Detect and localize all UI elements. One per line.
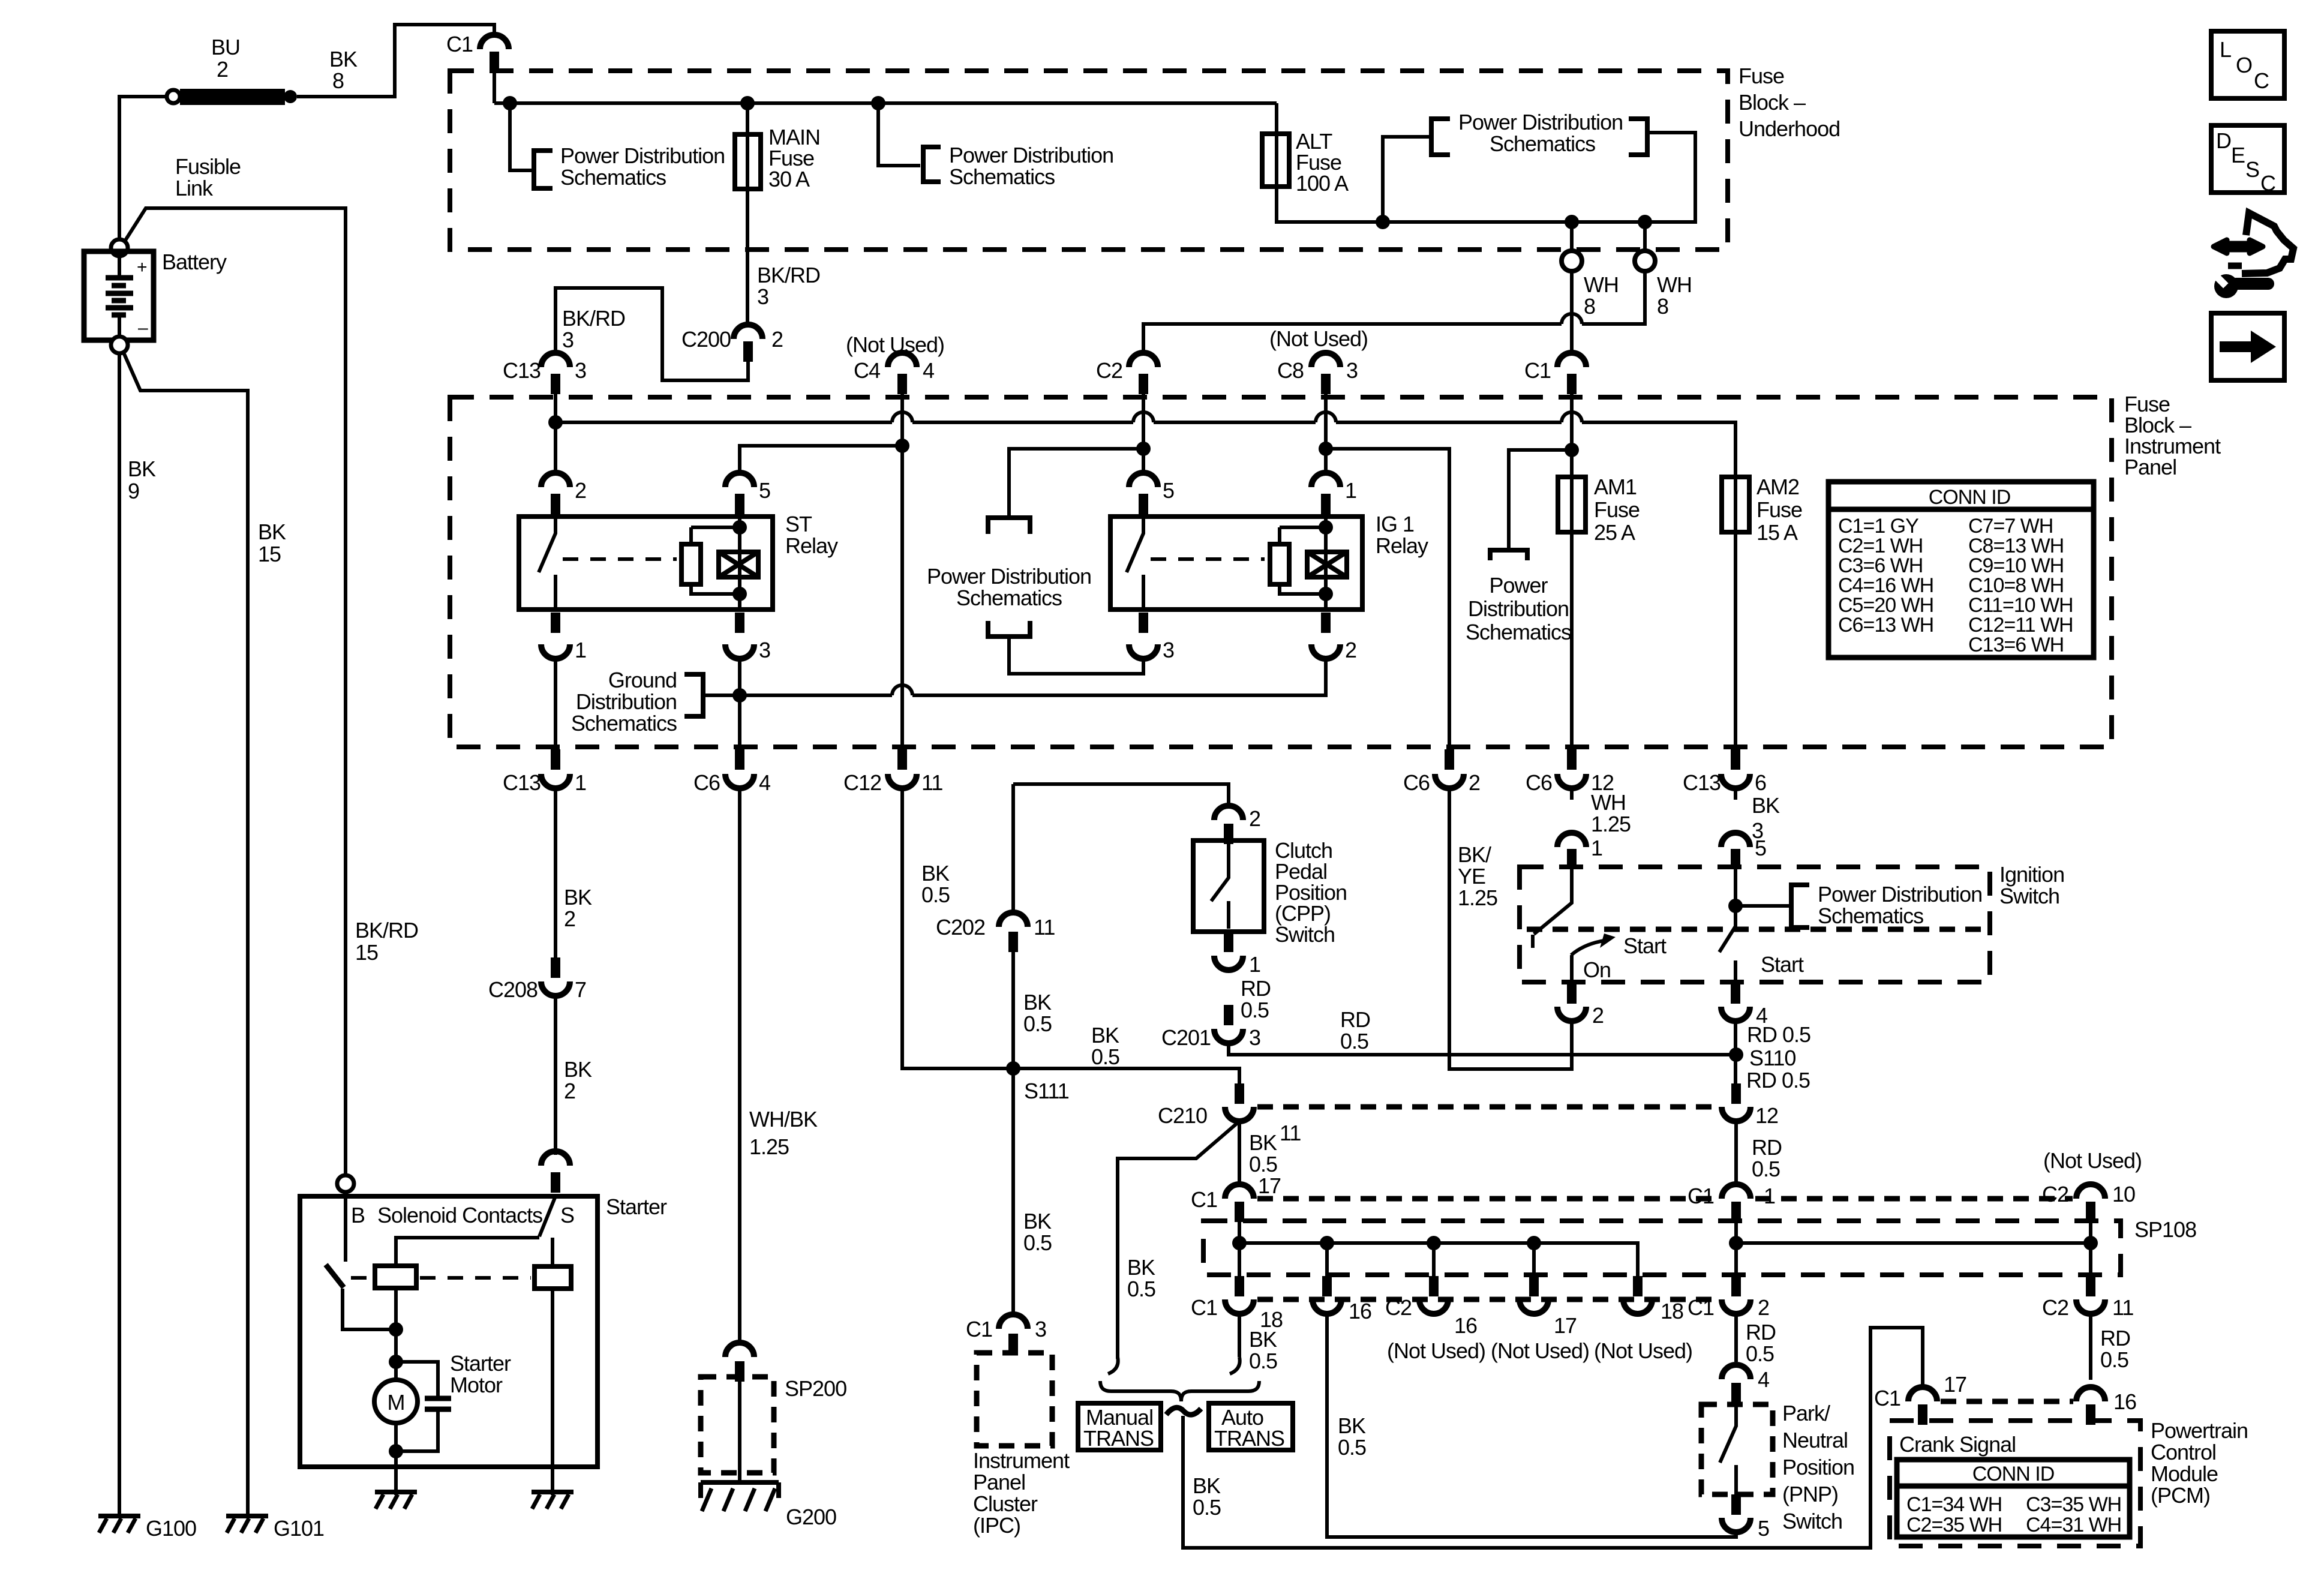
node C13 at IP bus: [548, 415, 563, 430]
svg-text:1.25: 1.25: [1591, 812, 1631, 836]
svg-text:Position: Position: [1782, 1455, 1854, 1479]
svg-text:Ground: Ground: [608, 668, 677, 692]
svg-text:Fusible: Fusible: [175, 154, 241, 179]
connector CPP pin 2: [1214, 806, 1260, 844]
ST relay armature box with X: [719, 552, 758, 577]
svg-text:Schematics: Schematics: [1818, 903, 1923, 928]
svg-text:Schematics: Schematics: [956, 586, 1062, 610]
svg-text:0.5: 0.5: [2100, 1347, 2128, 1372]
svg-text:C2: C2: [2042, 1295, 2068, 1320]
svg-text:Switch: Switch: [1999, 884, 2059, 908]
wire C200 to C13-3: [556, 288, 748, 380]
connector C8 pin 3 (IP top, not used): [1269, 326, 1368, 394]
svg-text:2: 2: [1758, 1295, 1769, 1320]
svg-text:Fuse: Fuse: [1756, 497, 1802, 522]
terminal circle B: [337, 1175, 354, 1192]
wire bus to MAIN fuse: [746, 103, 749, 134]
SP108 bus left: [1239, 1243, 1638, 1282]
starter motor M: [374, 1380, 418, 1423]
next-page arrow icon box: [2211, 313, 2284, 380]
wire C210 down to C1-17: [1238, 1121, 1241, 1184]
C1 row dashed line: [1257, 1196, 1717, 1202]
svg-text:Distribution: Distribution: [1468, 596, 1569, 621]
IG1 pin 5 connector: [1129, 473, 1174, 514]
PNP switch blade: [1720, 1404, 1736, 1494]
wire to power distribution ref 3: [1383, 137, 1430, 222]
svg-text:Schematics: Schematics: [571, 711, 677, 736]
wire C6-4 to SP200: [738, 788, 741, 1343]
svg-text:BK/RD: BK/RD: [562, 306, 625, 331]
svg-text:8: 8: [332, 68, 344, 93]
ST relay box: [519, 517, 773, 610]
svg-text:Motor: Motor: [450, 1373, 503, 1397]
IG1 switch: [1127, 517, 1143, 610]
connector SP200 feed: [725, 1343, 754, 1382]
svg-text:0.5: 0.5: [1249, 1349, 1277, 1373]
wire C13-6 to ignition pin 5: [1734, 788, 1737, 800]
svg-text:8: 8: [1584, 294, 1595, 319]
wire battery+ to BK/RD 15: [125, 208, 346, 1175]
svg-text:RD: RD: [1340, 1007, 1370, 1032]
svg-text:11: 11: [1034, 915, 1055, 939]
connector C2 pin 11: [2042, 1276, 2133, 1320]
node C2 branch to PDS mid: [1136, 442, 1151, 456]
svg-text:0.5: 0.5: [1091, 1044, 1119, 1069]
svg-text:CONN ID: CONN ID: [1929, 486, 2011, 509]
fuse block instrument panel dashed box: [450, 397, 2112, 747]
svg-text:C1: C1: [966, 1317, 992, 1341]
svg-text:2: 2: [217, 57, 228, 82]
node SP108 right: [1729, 1236, 1743, 1250]
svg-text:C13: C13: [1683, 770, 1721, 795]
starter capacitor branch: [396, 1362, 438, 1451]
instrument panel cluster dashed box: [977, 1353, 1052, 1446]
node ignition PDS branch: [1728, 899, 1743, 913]
ST relay pin 3 connector: [725, 613, 770, 662]
svg-text:17: 17: [1554, 1313, 1577, 1338]
svg-text:(PNP): (PNP): [1782, 1482, 1838, 1506]
svg-text:RD: RD: [1241, 976, 1271, 1001]
svg-text:C1: C1: [1191, 1187, 1217, 1212]
svg-text:C13: C13: [503, 770, 541, 795]
svg-text:RD: RD: [1746, 1320, 1776, 1344]
svg-text:(Not Used): (Not Used): [1269, 326, 1368, 351]
bracket power distribution ref 2: [923, 147, 941, 182]
starter box: [300, 1196, 597, 1467]
wire C210 diagonal to trans-select wire: [1118, 1121, 1239, 1359]
svg-text:S111: S111: [1024, 1079, 1069, 1103]
bus wire in underhood block: [494, 101, 1277, 105]
connector starter S: [541, 1151, 570, 1193]
connector C4 pin 4 (IP top, not used): [846, 332, 944, 394]
svg-text:BK: BK: [1249, 1130, 1277, 1155]
svg-text:0.5: 0.5: [1023, 1230, 1052, 1255]
connector pin 16: [1313, 1276, 1371, 1323]
svg-text:C200: C200: [681, 327, 731, 352]
svg-text:Schematics: Schematics: [1490, 131, 1595, 156]
wire-end curl right: [1230, 1357, 1240, 1374]
svg-text:TRANS: TRANS: [1083, 1426, 1154, 1451]
svg-text:0.5: 0.5: [1023, 1011, 1052, 1036]
node motor bottom: [389, 1444, 403, 1458]
PCM CONN ID table: [1897, 1460, 2130, 1537]
wire BK/YE: C6-2 to ignition pin 2: [1449, 788, 1572, 1069]
IP internal bus wire: [556, 422, 1736, 477]
wire to PDS bracket (ignition): [1736, 904, 1790, 908]
svg-text:0.5: 0.5: [1338, 1435, 1366, 1460]
connector PNP pin 5: [1722, 1494, 1769, 1541]
fuse AM2 15A: [1722, 477, 1749, 532]
node SP108 at C2: [2083, 1236, 2098, 1250]
ignition right pole: [1719, 869, 1736, 952]
svg-text:C2: C2: [1385, 1295, 1412, 1320]
svg-text:Control: Control: [2151, 1440, 2216, 1464]
splice S110: [1729, 1047, 1743, 1062]
svg-text:BK/: BK/: [1458, 842, 1491, 867]
node SP108 at C2-16: [1427, 1236, 1441, 1250]
connector C13 pin 3 (IP top): [503, 353, 586, 394]
starter solenoid switch blade: [326, 1265, 344, 1287]
svg-text:6: 6: [1755, 770, 1766, 795]
svg-text:Park/: Park/: [1782, 1401, 1830, 1425]
svg-text:C6: C6: [1526, 770, 1552, 795]
ground G200: [701, 1482, 779, 1511]
svg-text:Module: Module: [2151, 1461, 2218, 1486]
svg-text:BK: BK: [128, 457, 156, 481]
svg-text:BK/RD: BK/RD: [355, 918, 418, 942]
svg-text:5: 5: [1755, 836, 1766, 860]
svg-text:1: 1: [1591, 836, 1602, 860]
battery: [84, 239, 154, 353]
node ST coil bottom: [732, 587, 747, 601]
node B contact / motor: [389, 1322, 403, 1337]
wire WH8 left drop: [1570, 222, 1574, 250]
svg-text:8: 8: [1657, 294, 1668, 319]
svg-text:Power Distribution: Power Distribution: [1458, 110, 1623, 134]
svg-text:1: 1: [575, 770, 586, 795]
svg-text:ST: ST: [785, 512, 812, 536]
wire coil to motor node: [394, 1288, 398, 1362]
svg-text:S: S: [2245, 157, 2259, 182]
svg-text:3: 3: [759, 638, 770, 662]
svg-text:4: 4: [759, 770, 770, 795]
svg-text:0.5: 0.5: [1127, 1277, 1155, 1301]
svg-text:1: 1: [1764, 1184, 1775, 1208]
connector C13 pin 6: [1683, 749, 1766, 795]
svg-text:Schematics: Schematics: [1466, 620, 1571, 644]
svg-text:Schematics: Schematics: [949, 164, 1055, 189]
connector C1 (IP top): [1524, 353, 1586, 394]
wire trans select to crank signal: [1183, 1328, 1923, 1548]
wire PNP 5 to SP108-16: [1327, 1314, 1736, 1537]
ground starter motor: [375, 1492, 417, 1509]
svg-text:16: 16: [1454, 1313, 1477, 1338]
connector ignition pin 4: [1721, 983, 1767, 1028]
svg-text:YE: YE: [1458, 864, 1485, 888]
svg-text:18: 18: [1661, 1299, 1683, 1323]
svg-text:WH: WH: [1657, 272, 1692, 297]
bracket PDS ignition: [1791, 885, 1809, 927]
wire AM2 to C13-6: [1734, 532, 1737, 760]
terminal circle WH8 left: [1562, 251, 1582, 271]
fuse AM1 25A: [1558, 477, 1586, 532]
connector C208 pin 7: [488, 957, 586, 1002]
node ST pin3 / ground distribution: [732, 688, 747, 703]
PNP switch dashed box: [1701, 1404, 1773, 1494]
wire C8 drop to IG1 pin 1: [1324, 394, 1328, 473]
svg-text:100 A: 100 A: [1296, 171, 1349, 196]
node C4 / ST relay pin5 feed: [895, 439, 909, 453]
svg-text:3: 3: [1035, 1317, 1046, 1341]
wire C1-17 into SP108: [1238, 1222, 1241, 1243]
IG1 armature box with X: [1307, 552, 1347, 577]
svg-text:C4: C4: [854, 358, 880, 383]
svg-text:–: –: [138, 318, 148, 338]
svg-text:C208: C208: [488, 977, 538, 1002]
fuse MAIN 30A: [735, 134, 761, 189]
svg-text:Fuse: Fuse: [1594, 497, 1640, 522]
ground G101: [226, 1516, 268, 1533]
brace: [1100, 1381, 1259, 1401]
svg-text:BK/RD: BK/RD: [757, 263, 820, 287]
DESC icon box: [2211, 125, 2284, 196]
svg-text:C202: C202: [936, 915, 985, 939]
svg-text:(Not Used): (Not Used): [2043, 1148, 2142, 1173]
svg-text:11: 11: [1280, 1121, 1301, 1145]
node WH8 left: [1565, 215, 1579, 229]
starter solenoid coil left (pull-in): [375, 1266, 416, 1288]
svg-text:C: C: [2254, 68, 2269, 93]
ST relay actuation dashed: [563, 557, 677, 561]
bracket power distribution ref 1: [534, 151, 553, 188]
connector CPP pin 1: [1214, 932, 1260, 977]
wire C208 to starter S: [554, 996, 557, 1155]
svg-text:IG 1: IG 1: [1376, 512, 1414, 536]
svg-text:Start: Start: [1761, 952, 1804, 977]
wire to power distribution ref 2: [878, 103, 920, 166]
wire C1-18 down: [1238, 1314, 1241, 1357]
wire battery- to G100: [118, 353, 121, 1515]
Manual TRANS box: [1078, 1403, 1161, 1450]
svg-text:1.25: 1.25: [749, 1134, 789, 1159]
ST relay pin 5 connector: [725, 473, 770, 514]
svg-text:Power: Power: [1489, 573, 1548, 598]
node ST coil top: [732, 520, 747, 535]
hop C1: [1562, 412, 1582, 422]
svg-text:D: D: [2216, 128, 2231, 153]
wire WH8 right drop: [1643, 222, 1647, 250]
svg-text:Relay: Relay: [1376, 533, 1428, 558]
svg-text:2: 2: [1345, 638, 1356, 662]
wire C1 drop to AM1: [1570, 394, 1574, 477]
svg-text:C13=6 WH: C13=6 WH: [1968, 634, 2064, 656]
svg-text:B: B: [351, 1203, 365, 1227]
ignition start terminal wire: [1734, 960, 1737, 984]
svg-text:+: +: [137, 257, 147, 277]
svg-text:C6: C6: [693, 770, 720, 795]
svg-text:RD 0.5: RD 0.5: [1746, 1068, 1810, 1092]
svg-text:C12: C12: [843, 770, 881, 795]
svg-text:RD: RD: [2100, 1326, 2130, 1350]
node IG1 coil top: [1319, 520, 1333, 535]
IG1 pin 3 connector: [1129, 613, 1174, 662]
wire C2 to power distribution ref mid: [1009, 449, 1143, 517]
svg-text:16: 16: [2113, 1389, 2136, 1414]
svg-text:BK: BK: [1338, 1413, 1366, 1438]
svg-text:0.5: 0.5: [921, 882, 950, 907]
svg-text:0.5: 0.5: [1241, 998, 1269, 1022]
svg-text:1: 1: [1345, 478, 1356, 503]
svg-text:CONN ID: CONN ID: [1972, 1463, 2055, 1485]
wire WH8 right to C2 instrument panel: [1143, 271, 1645, 353]
wire fusible link to C1 underhood: [297, 25, 494, 97]
wire C1-2 to PNP pin 4: [1734, 1314, 1738, 1362]
hop C8: [1316, 412, 1336, 422]
svg-text:SP108: SP108: [2134, 1217, 2196, 1242]
svg-text:(IPC): (IPC): [973, 1513, 1020, 1538]
IG1 coil resistor: [1270, 544, 1289, 584]
wire bracket to node: [703, 694, 740, 697]
connector C6 pin 12: [1526, 749, 1614, 795]
IG1 pin 2 connector: [1311, 613, 1356, 662]
svg-text:C3=35 WH: C3=35 WH: [2026, 1493, 2121, 1516]
wire B into box: [344, 1192, 347, 1262]
svg-text:5: 5: [1163, 478, 1174, 503]
svg-text:Power Distribution: Power Distribution: [560, 143, 725, 168]
node PDS3 left: [1376, 215, 1390, 229]
svg-text:1: 1: [1249, 952, 1260, 977]
svg-text:BK: BK: [1023, 990, 1052, 1014]
connector pin 18 (not used): [1594, 1276, 1692, 1363]
fusible link: [167, 89, 297, 105]
ignition start curve arrow: [1571, 940, 1608, 955]
node WH8 right: [1638, 215, 1652, 229]
node PDS1 branch: [503, 96, 517, 110]
bracket PDS mid top: [988, 518, 1030, 534]
wire C201 to S110: [1229, 1043, 1736, 1055]
svg-text:TRANS: TRANS: [1214, 1426, 1284, 1451]
connector C1 pin 3 (IPC): [966, 1314, 1046, 1354]
svg-text:3: 3: [562, 328, 574, 352]
selector tilde: [1166, 1407, 1201, 1415]
svg-text:G101: G101: [274, 1516, 324, 1541]
wire C6-12 to ignition pin 1: [1570, 788, 1574, 800]
connector C2 (IP top): [1096, 353, 1158, 394]
wire pin 4 to S110: [1734, 1021, 1737, 1087]
bracket ground distribution: [684, 674, 703, 716]
svg-text:C210: C210: [1158, 1103, 1207, 1128]
svg-text:WH: WH: [1584, 272, 1619, 297]
connector C12 pin 11: [843, 749, 942, 795]
svg-text:15 A: 15 A: [1756, 520, 1798, 545]
connector C6 pin 2: [1403, 749, 1480, 795]
wire C1-1 through SP108: [1734, 1219, 1738, 1282]
svg-text:Block –: Block –: [1739, 90, 1806, 115]
svg-text:(Not Used): (Not Used): [1491, 1338, 1589, 1363]
svg-text:Powertrain: Powertrain: [2151, 1418, 2248, 1443]
svg-text:1: 1: [575, 638, 586, 662]
svg-text:SP200: SP200: [785, 1376, 846, 1401]
svg-text:O: O: [2236, 53, 2252, 77]
wire C4 drop to C12-11: [900, 394, 904, 760]
svg-text:2: 2: [771, 327, 783, 352]
svg-text:4: 4: [923, 358, 934, 383]
ground G100: [98, 1516, 140, 1533]
SP108 bus right: [1736, 1241, 2091, 1245]
ST relay pin 1 connector: [541, 613, 586, 662]
svg-text:3: 3: [1163, 638, 1174, 662]
wire S111 to C210: [1013, 1068, 1239, 1083]
connector pin 16 (crank): [2076, 1387, 2136, 1425]
svg-text:15: 15: [258, 542, 281, 566]
ST relay coil wiring: [691, 517, 740, 610]
starter solenoid actuation dashed: [351, 1276, 372, 1280]
row dashed line: [1257, 1297, 1717, 1302]
svg-text:Panel: Panel: [2124, 455, 2176, 479]
wire S blade into box: [396, 1196, 556, 1266]
CPP switch blade: [1211, 844, 1229, 929]
fuse block underhood box: [450, 71, 1728, 250]
svg-text:L: L: [2220, 37, 2231, 62]
wire-end curl left: [1108, 1357, 1118, 1374]
svg-text:Cluster: Cluster: [973, 1491, 1038, 1516]
svg-text:Switch: Switch: [1275, 922, 1335, 947]
svg-text:Crank Signal: Crank Signal: [1899, 1432, 2016, 1457]
svg-text:C1: C1: [446, 32, 473, 56]
ignition left pole blade: [1533, 869, 1572, 948]
wire C202 to S111: [1011, 952, 1015, 1314]
hop over C4 wire: [892, 685, 912, 695]
wire ST pin3 down: [738, 659, 741, 760]
svg-text:M: M: [388, 1390, 405, 1415]
connector C1 pin 17 (crank): [1874, 1372, 1966, 1425]
svg-text:G100: G100: [146, 1516, 196, 1541]
IG1 actuation dashed: [1151, 557, 1265, 561]
svg-text:Relay: Relay: [785, 533, 838, 558]
wire C2-11 to crank 16: [2089, 1314, 2092, 1380]
svg-text:BK: BK: [1023, 1209, 1052, 1233]
wire IG1 pin2 to ground distribution bus: [740, 659, 1326, 695]
svg-text:16: 16: [1349, 1299, 1371, 1323]
svg-text:5: 5: [759, 478, 770, 503]
node MAIN fuse: [740, 96, 755, 110]
ST relay switch: [539, 517, 556, 610]
svg-text:0.5: 0.5: [1752, 1157, 1780, 1181]
svg-text:17: 17: [1258, 1173, 1281, 1198]
svg-text:Neutral: Neutral: [1782, 1428, 1848, 1452]
svg-text:C1: C1: [1874, 1386, 1900, 1410]
svg-text:C4=31 WH: C4=31 WH: [2026, 1514, 2121, 1536]
svg-text:11: 11: [921, 770, 942, 795]
LOC icon box: [2211, 31, 2284, 98]
svg-text:9: 9: [128, 479, 139, 503]
svg-text:S110: S110: [1749, 1046, 1795, 1070]
svg-text:WH/BK: WH/BK: [749, 1107, 818, 1131]
terminal circle WH8 right: [1635, 251, 1655, 271]
svg-text:Start: Start: [1623, 933, 1667, 958]
svg-text:BK: BK: [258, 520, 286, 544]
svg-text:(Not Used): (Not Used): [1387, 1338, 1485, 1363]
svg-text:RD: RD: [1752, 1135, 1782, 1160]
svg-text:BK: BK: [1249, 1327, 1277, 1352]
svg-text:17: 17: [1944, 1372, 1966, 1397]
svg-text:C: C: [2260, 171, 2275, 196]
svg-text:3: 3: [1249, 1025, 1260, 1050]
svg-text:Battery: Battery: [162, 250, 227, 274]
svg-text:0.5: 0.5: [1340, 1029, 1368, 1053]
bracket power distribution ref (IP): [1490, 550, 1527, 560]
svg-text:C2: C2: [2042, 1182, 2068, 1206]
